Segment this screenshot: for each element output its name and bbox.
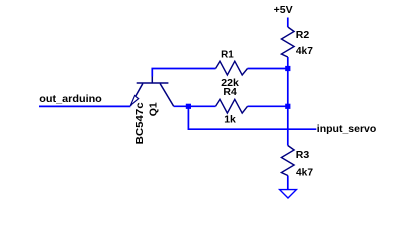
wire collector to R4 [174, 105, 216, 107]
wire R1 right to rail [248, 68, 288, 70]
svg-text:4k7: 4k7 [296, 166, 313, 178]
transistor Q1 emitter arrow [130, 95, 138, 105]
svg-text:R3: R3 [296, 149, 310, 161]
wire rail R2 to R3 [287, 57, 289, 146]
wire +5V lead [287, 18, 289, 28]
ground symbol [280, 190, 297, 198]
resistor R1 zigzag [216, 61, 248, 75]
svg-text:4k7: 4k7 [296, 45, 313, 57]
resistor R4 zigzag [216, 99, 248, 113]
svg-text:R1: R1 [221, 48, 234, 60]
resistor R2 zigzag [281, 27, 294, 57]
node junction R4/rail [285, 104, 290, 109]
resistor R3 zigzag [281, 146, 294, 176]
svg-text:R2: R2 [296, 29, 310, 41]
svg-text:1k: 1k [224, 114, 236, 126]
svg-text:+5V: +5V [274, 4, 293, 16]
wire R4 right to rail [248, 105, 288, 107]
wire collector drop to input_servo [188, 106, 316, 129]
svg-text:R4: R4 [223, 86, 237, 98]
svg-text:Q1: Q1 [148, 102, 160, 116]
svg-text:input_servo: input_servo [317, 123, 377, 135]
svg-text:BC547c: BC547c [134, 102, 146, 144]
wire base to R1 [152, 69, 215, 77]
node junction collector/R4/drop [186, 104, 191, 109]
wire out_arduino net [39, 105, 130, 107]
node junction R1/rail [285, 66, 290, 71]
wire R3 to ground [287, 176, 289, 190]
transistor Q1 body [130, 77, 173, 107]
svg-text:out_arduino: out_arduino [39, 93, 102, 105]
